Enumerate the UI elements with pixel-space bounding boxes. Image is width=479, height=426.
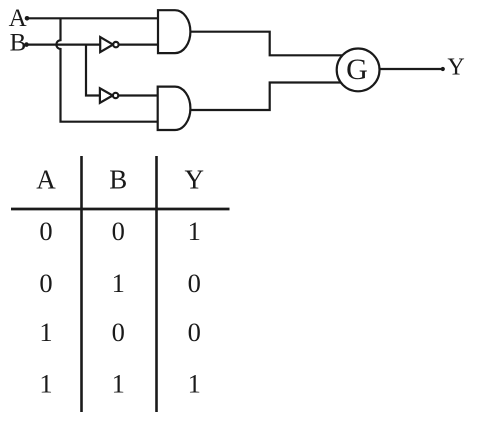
svg-text:Y: Y bbox=[185, 165, 205, 195]
NOT gate lower triangle bbox=[100, 88, 113, 103]
wire NOT2 output to AND2 upper input bbox=[118, 94, 157, 96]
output terminal dot Y bbox=[441, 67, 445, 71]
svg-text:A: A bbox=[9, 5, 27, 32]
wire B horizontal to NOT1 bbox=[28, 43, 101, 45]
svg-text:0: 0 bbox=[39, 216, 52, 246]
svg-text:0: 0 bbox=[188, 317, 201, 347]
truth table column divider 2 bbox=[155, 156, 158, 412]
AND gate upper bbox=[158, 10, 190, 53]
svg-text:1: 1 bbox=[188, 216, 201, 246]
gate G circle bbox=[337, 49, 380, 92]
svg-text:Y: Y bbox=[447, 55, 464, 81]
svg-text:0: 0 bbox=[112, 317, 125, 347]
svg-text:G: G bbox=[346, 53, 368, 86]
svg-text:1: 1 bbox=[112, 268, 125, 298]
wire NOT1 output to AND1 lower input bbox=[119, 43, 158, 45]
svg-text:1: 1 bbox=[188, 368, 201, 398]
svg-text:1: 1 bbox=[39, 317, 52, 347]
wire G output bbox=[380, 68, 442, 70]
wire A branch vertical with hop over B and bottom rail to AND2 bbox=[56, 18, 157, 121]
svg-text:0: 0 bbox=[188, 268, 201, 298]
wire AND1 output to gate G bbox=[190, 32, 345, 56]
NOT gate lower bubble bbox=[113, 93, 118, 98]
input terminal dot B bbox=[24, 42, 29, 47]
wire AND2 output to gate G bbox=[190, 83, 345, 111]
wire B branch vertical to NOT2 input bbox=[86, 45, 100, 96]
svg-text:1: 1 bbox=[112, 368, 125, 398]
svg-text:0: 0 bbox=[112, 216, 125, 246]
NOT gate upper triangle bbox=[100, 37, 113, 52]
truth table column divider 1 bbox=[80, 156, 83, 412]
svg-text:A: A bbox=[36, 165, 56, 195]
svg-text:1: 1 bbox=[39, 368, 52, 398]
AND gate lower bbox=[158, 87, 191, 130]
svg-text:0: 0 bbox=[39, 268, 52, 298]
NOT gate upper bubble bbox=[113, 42, 118, 47]
wire A horizontal to AND1 bbox=[28, 17, 158, 19]
svg-text:B: B bbox=[10, 30, 27, 57]
svg-text:B: B bbox=[109, 165, 127, 195]
input terminal dot A bbox=[25, 16, 30, 21]
truth table header rule bbox=[11, 208, 230, 211]
